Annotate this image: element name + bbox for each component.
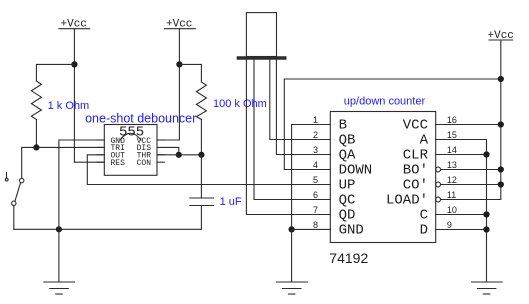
svg-text:1 k Ohm: 1 k Ohm bbox=[48, 100, 90, 112]
svg-text:BO': BO' bbox=[403, 163, 428, 179]
counter LOAD' pin11 bubble bbox=[436, 197, 441, 202]
wire display to QC pin6 bbox=[254, 60, 330, 200]
svg-text:11: 11 bbox=[447, 190, 456, 200]
svg-text:C: C bbox=[420, 208, 428, 224]
wire counter GND pin8 bbox=[292, 228, 331, 230]
counter BO' pin13 bubble bbox=[436, 167, 441, 172]
junction pin12 / Vcc3 bbox=[498, 181, 504, 187]
svg-text:5: 5 bbox=[313, 175, 318, 185]
junction pin9 / ground line bbox=[483, 226, 489, 232]
junction pin10 / ground line bbox=[483, 211, 489, 217]
wire display to QD pin7 bbox=[246, 60, 330, 215]
wire counter VCC pin16 to Vcc3 bbox=[436, 124, 501, 126]
svg-text:up/down counter: up/down counter bbox=[344, 96, 426, 108]
svg-text:2: 2 bbox=[313, 130, 318, 140]
ic U2 74192 bbox=[330, 112, 435, 243]
wire bottom ground rail bbox=[14, 228, 202, 230]
svg-text:7: 7 bbox=[313, 205, 318, 215]
wire switch bottom to ground rail bbox=[13, 206, 15, 230]
wire counter B pin1 to ground bbox=[292, 125, 331, 230]
junction THR / C1 / R2 bbox=[198, 152, 204, 158]
svg-text:4: 4 bbox=[313, 160, 318, 170]
wire Vcc1 to R1 top bbox=[36, 64, 74, 81]
wire 555 OUT to counter UP pin5 bbox=[87, 155, 330, 185]
power +Vcc V2 bbox=[164, 19, 195, 31]
wire Vcc2 to R2 top bbox=[179, 64, 201, 82]
svg-text:QB: QB bbox=[339, 133, 356, 149]
wire node TRI to switch top bbox=[22, 147, 37, 178]
svg-text:3: 3 bbox=[313, 145, 318, 155]
ground GND2 bbox=[277, 229, 308, 294]
svg-text:12: 12 bbox=[447, 175, 457, 185]
junction pin16 / Vcc3 bbox=[498, 121, 504, 127]
wire counter C pin10 to ground bbox=[436, 214, 487, 216]
switch S1 bbox=[5, 172, 24, 205]
svg-text:1 uF: 1 uF bbox=[220, 196, 242, 208]
555 right pin stubs bbox=[157, 140, 164, 155]
ground GND1 bbox=[44, 229, 75, 294]
wire counter DOWN pin4 to Vcc rail bbox=[284, 79, 330, 170]
counter CO' pin12 bubble bbox=[436, 182, 441, 187]
junction DIS / THR bbox=[176, 152, 182, 158]
junction node Vcc1 / R1 bbox=[71, 61, 77, 67]
svg-text:1: 1 bbox=[313, 115, 318, 125]
svg-text:QD: QD bbox=[339, 208, 356, 224]
svg-text:CO': CO' bbox=[403, 178, 428, 194]
wire display to QA pin3 bbox=[276, 60, 330, 155]
junction node TRI bbox=[33, 144, 39, 150]
wire counter CO' pin12 bbox=[441, 184, 501, 186]
svg-text:10: 10 bbox=[447, 205, 457, 215]
wire R2 bottom to node THR bbox=[200, 120, 202, 155]
svg-text:LOAD': LOAD' bbox=[386, 193, 428, 209]
svg-text:6: 6 bbox=[313, 190, 318, 200]
svg-text:RES: RES bbox=[111, 159, 126, 168]
svg-text:QC: QC bbox=[339, 193, 356, 209]
svg-text:8: 8 bbox=[313, 220, 318, 230]
svg-text:A: A bbox=[420, 133, 429, 149]
svg-text:13: 13 bbox=[447, 160, 457, 170]
555 CON pin stub bbox=[157, 161, 164, 163]
ic U1 555 timer bbox=[104, 124, 157, 175]
junction node Vcc2 / R2 bbox=[176, 61, 182, 67]
svg-text:DOWN: DOWN bbox=[339, 163, 373, 179]
junction pin14 / ground line bbox=[483, 151, 489, 157]
wire top Vcc rail bbox=[284, 78, 501, 80]
wire counter BO' pin13 bbox=[441, 169, 501, 171]
svg-text:74192: 74192 bbox=[329, 250, 368, 266]
wire +Vcc1 stem down to RES row bbox=[73, 29, 75, 163]
svg-text:CLR: CLR bbox=[403, 148, 429, 164]
wire Vcc3 stem down to LOAD pin11 bbox=[441, 40, 501, 200]
svg-text:15: 15 bbox=[447, 130, 457, 140]
svg-text:CON: CON bbox=[137, 159, 152, 168]
svg-text:100 k Ohm: 100 k Ohm bbox=[213, 98, 267, 110]
wire counter A pin15 to ground bbox=[436, 140, 487, 283]
wire R1 bottom to node TRI bbox=[35, 120, 37, 148]
resistor R1 bbox=[31, 81, 41, 120]
svg-text:VCC: VCC bbox=[403, 118, 428, 134]
svg-text:14: 14 bbox=[447, 145, 457, 155]
555 left pin stubs bbox=[97, 140, 104, 162]
wire 555 THR pin to C1 bbox=[157, 154, 201, 156]
svg-text:D: D bbox=[420, 223, 428, 239]
resistor R2 bbox=[196, 82, 206, 120]
wire display to QB pin2 bbox=[270, 60, 331, 140]
svg-text:B: B bbox=[339, 118, 347, 134]
svg-text:one-shot debouncer: one-shot debouncer bbox=[85, 112, 196, 126]
wire counter D pin9 to ground bbox=[436, 229, 487, 231]
junction pin13 / Vcc3 bbox=[498, 166, 504, 172]
capacitor C1 bbox=[190, 155, 214, 230]
ground GND3 bbox=[472, 282, 503, 294]
display DS1 base bar bbox=[238, 56, 284, 59]
power +Vcc V3 bbox=[488, 30, 514, 42]
wire counter CLR pin14 bbox=[436, 154, 487, 156]
wire 555 RES pin to Vcc1 stem bbox=[74, 161, 104, 163]
svg-text:UP: UP bbox=[339, 178, 356, 194]
wire 555 DIS pin down to THR bbox=[157, 147, 179, 154]
display DS1 body bbox=[246, 13, 276, 57]
wire Vcc2 stem to 555 VCC pin bbox=[157, 29, 179, 140]
svg-text:GND: GND bbox=[339, 223, 364, 239]
svg-text:16: 16 bbox=[447, 115, 457, 125]
svg-text:QA: QA bbox=[339, 148, 356, 164]
wire 555 GND pin to ground rail bbox=[59, 140, 104, 229]
junction counter GND node bbox=[289, 226, 295, 232]
svg-text:9: 9 bbox=[447, 220, 452, 230]
junction ground rail / 555 GND bbox=[56, 226, 62, 232]
junction Vcc3 / top rail bbox=[498, 76, 504, 82]
wire node TRI to 555 TRI pin bbox=[36, 146, 104, 148]
power +Vcc V1 bbox=[59, 19, 90, 31]
